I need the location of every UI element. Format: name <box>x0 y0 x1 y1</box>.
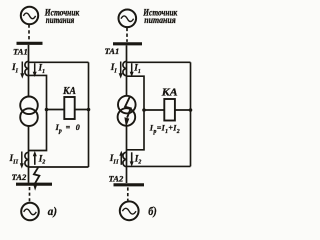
svg-text:КА: КА <box>62 86 76 97</box>
svg-text:ТА2: ТА2 <box>12 172 27 182</box>
svg-text:ТА2: ТА2 <box>109 174 124 184</box>
svg-text:питания: питания <box>46 15 75 25</box>
svg-text:ТА1: ТА1 <box>13 47 28 57</box>
svg-text:б): б) <box>148 204 157 218</box>
svg-text:питания: питания <box>144 15 176 25</box>
svg-text:ТА1: ТА1 <box>105 46 120 56</box>
svg-text:а): а) <box>48 204 57 218</box>
svg-text:КА: КА <box>161 87 178 98</box>
